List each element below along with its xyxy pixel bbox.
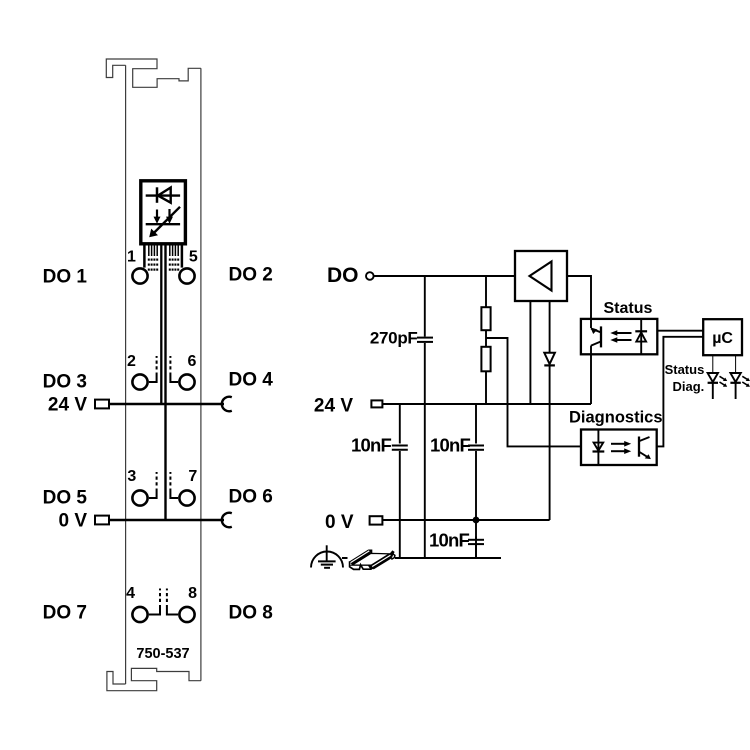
svg-text:µC: µC: [712, 330, 733, 347]
svg-text:10nF: 10nF: [429, 530, 469, 551]
svg-text:Status: Status: [665, 362, 705, 377]
svg-text:10nF: 10nF: [351, 435, 391, 456]
svg-text:270pF: 270pF: [370, 329, 418, 348]
svg-text:24 V: 24 V: [48, 395, 87, 416]
svg-text:10nF: 10nF: [430, 435, 470, 456]
svg-text:0 V: 0 V: [58, 511, 87, 532]
svg-text:4: 4: [126, 585, 135, 602]
svg-text:DO 2: DO 2: [229, 265, 273, 286]
svg-text:Diag.: Diag.: [673, 379, 705, 394]
svg-text:DO 1: DO 1: [43, 267, 88, 288]
svg-text:DO: DO: [327, 264, 359, 287]
svg-text:3: 3: [127, 468, 136, 485]
svg-text:24 V: 24 V: [314, 395, 353, 416]
svg-text:DO 6: DO 6: [229, 487, 273, 508]
svg-text:DO 7: DO 7: [43, 603, 87, 624]
svg-text:Status: Status: [604, 300, 653, 317]
svg-text:DO 4: DO 4: [229, 370, 274, 391]
svg-text:Diagnostics: Diagnostics: [569, 409, 663, 427]
svg-text:0 V: 0 V: [325, 512, 354, 533]
svg-text:5: 5: [189, 249, 198, 266]
svg-text:DO 8: DO 8: [229, 603, 273, 624]
svg-text:DO 3: DO 3: [43, 372, 87, 393]
svg-text:2: 2: [127, 353, 136, 370]
svg-text:7: 7: [188, 468, 197, 485]
svg-text:6: 6: [188, 353, 197, 370]
svg-text:750-537: 750-537: [136, 646, 189, 662]
svg-text:1: 1: [127, 249, 136, 266]
svg-text:DO 5: DO 5: [43, 488, 88, 509]
svg-text:8: 8: [188, 585, 197, 602]
